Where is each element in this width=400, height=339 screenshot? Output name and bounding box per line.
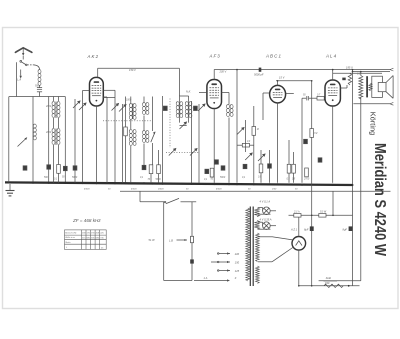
svg-text:2700: 2700 — [303, 179, 310, 181]
svg-text:5000: 5000 — [156, 179, 162, 181]
svg-text:940: 940 — [325, 281, 330, 285]
svg-text:A Z 1: A Z 1 — [290, 227, 298, 231]
svg-text:4/503: 4/503 — [84, 188, 90, 191]
svg-text:A L 4: A L 4 — [325, 54, 337, 59]
svg-text:125: 125 — [235, 269, 240, 273]
svg-text:51 W: 51 W — [320, 210, 327, 214]
svg-text:15 V: 15 V — [279, 76, 285, 80]
svg-text:195 V: 195 V — [346, 66, 353, 70]
svg-text:4/503: 4/503 — [131, 188, 137, 191]
svg-text:2 M: 2 M — [313, 133, 318, 135]
svg-text:A K 2: A K 2 — [87, 54, 99, 59]
svg-text:2/50: 2/50 — [271, 189, 277, 191]
svg-text:Bereich kHz: Bereich kHz — [65, 231, 76, 234]
svg-text:3/503: 3/503 — [158, 189, 164, 191]
svg-text:ZF = 468 kHz: ZF = 468 kHz — [72, 218, 101, 223]
svg-text:L.B: L.B — [169, 239, 173, 243]
svg-text:Welle in m: Welle in m — [65, 237, 75, 239]
svg-text:Feld: Feld — [326, 276, 332, 280]
svg-text:150 V: 150 V — [129, 68, 136, 72]
svg-text:2000: 2000 — [45, 132, 52, 134]
svg-text:Skala: Skala — [65, 242, 71, 244]
svg-text:8μF: 8μF — [343, 227, 348, 231]
svg-text:1 M: 1 M — [255, 129, 259, 131]
svg-text:150: 150 — [235, 261, 240, 265]
svg-text:4 V 0,35 A: 4 V 0,35 A — [260, 218, 272, 222]
svg-text:220: 220 — [234, 252, 240, 256]
svg-text:Meridian S 4240 W: Meridian S 4240 W — [371, 143, 388, 256]
svg-text:8μF: 8μF — [304, 227, 309, 231]
svg-text:A F 3: A F 3 — [209, 54, 221, 59]
svg-text:205 V: 205 V — [219, 70, 227, 74]
svg-text:2000: 2000 — [45, 106, 52, 108]
svg-text:4/503: 4/503 — [216, 188, 222, 191]
svg-text:5000 pF: 5000 pF — [254, 73, 264, 77]
svg-text:4 V 0,1 A: 4 V 0,1 A — [260, 200, 271, 204]
svg-text:5000: 5000 — [72, 177, 78, 179]
svg-text:Körting: Körting — [368, 112, 377, 135]
svg-text:A B C 1: A B C 1 — [265, 54, 282, 59]
svg-text:1000: 1000 — [126, 100, 132, 102]
svg-text:1 A: 1 A — [204, 276, 208, 280]
svg-text:N.K.: N.K. — [186, 90, 191, 94]
svg-text:L.A: L.A — [17, 78, 21, 82]
svg-text:51 W: 51 W — [149, 238, 156, 242]
svg-text:5000: 5000 — [220, 177, 226, 179]
svg-text:2,1 k: 2,1 k — [293, 210, 300, 214]
